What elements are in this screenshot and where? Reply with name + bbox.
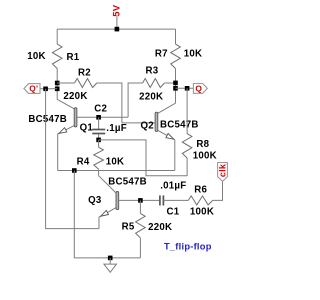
node C2 top: [96, 115, 101, 120]
svg-text:R1: R1: [67, 52, 80, 63]
svg-text:10K: 10K: [184, 48, 203, 59]
transistor Q2: [158, 103, 176, 113]
node R8 branch: [185, 86, 190, 91]
wire Qbar flag lead: [40, 88, 57, 90]
wire Q1 base to R3: [99, 116, 129, 118]
svg-text:220K: 220K: [148, 222, 172, 233]
svg-text:BC547B: BC547B: [108, 177, 147, 188]
node ground tee: [108, 256, 113, 261]
resistor R3: [128, 83, 143, 117]
wire emitter rail: [58, 170, 175, 172]
flag clk input: [218, 163, 228, 182]
wire C2 bottom to R8 bottom: [99, 140, 188, 176]
svg-text:10K: 10K: [106, 156, 125, 167]
wire top power rail: [57, 28, 175, 30]
node ground branch: [72, 168, 77, 173]
svg-text:BC547B: BC547B: [28, 114, 67, 125]
wire Q flag lead: [176, 87, 194, 89]
svg-text:5V: 5V: [112, 4, 123, 17]
resistor R6: [163, 199, 188, 201]
svg-text:R3: R3: [146, 65, 159, 76]
svg-text:T_flip-flop: T_flip-flop: [164, 241, 212, 251]
svg-text:.1µF: .1µF: [106, 123, 127, 134]
svg-text:10K: 10K: [27, 51, 46, 62]
svg-text:Q3: Q3: [88, 195, 102, 206]
ground symbol: [104, 258, 117, 272]
node Q tee: [173, 86, 178, 91]
svg-text:R4: R4: [77, 156, 90, 167]
wire Qbar branch down-around to Q3 emitter: [46, 89, 99, 229]
svg-text:100K: 100K: [190, 207, 214, 218]
wire Q1 collector vertical: [56, 83, 58, 99]
node Qbar tee: [55, 87, 60, 92]
svg-text:R8: R8: [196, 139, 209, 150]
svg-text:R2: R2: [78, 68, 91, 79]
svg-text:BC547B: BC547B: [160, 119, 199, 130]
resistor R7: [175, 29, 177, 44]
capacitor C2: [98, 117, 100, 129]
wire Q2 collector vertical: [175, 83, 177, 103]
resistor R1: [56, 29, 58, 44]
svg-text:100K: 100K: [193, 151, 217, 162]
wire Q3 base node: [140, 199, 160, 201]
node 5V junction: [115, 27, 120, 32]
svg-text:C1: C1: [167, 206, 180, 217]
node R3 tee: [173, 81, 178, 86]
capacitor C1: [159, 195, 161, 205]
transistor Q3: [99, 176, 117, 193]
resistor R4: [98, 140, 100, 147]
resistor R8: [186, 88, 188, 133]
svg-text:R6: R6: [194, 184, 207, 195]
resistor R5: [139, 200, 141, 213]
node R2 tee: [55, 81, 60, 86]
flag Qbar output: [24, 84, 40, 94]
svg-text:220K: 220K: [63, 91, 87, 102]
node C2 bottom: [96, 138, 101, 143]
wire bottom ground rail: [74, 171, 140, 258]
flag Q output: [193, 84, 207, 94]
wire Q2 emitter vertical: [174, 140, 176, 171]
svg-text:220K: 220K: [139, 91, 163, 102]
resistor R2: [57, 82, 74, 84]
svg-text:R5: R5: [122, 221, 135, 232]
node R5 tee: [138, 198, 143, 203]
wire R2 to Q2 base: [122, 122, 155, 124]
svg-text:clk: clk: [218, 163, 228, 177]
node Qbar branch: [43, 87, 48, 92]
svg-text:Q1: Q1: [80, 123, 94, 134]
svg-text:Q2: Q2: [140, 120, 153, 131]
wire 5V lead: [116, 17, 118, 30]
transistor Q1: [57, 99, 75, 109]
svg-text:R7: R7: [155, 48, 168, 59]
svg-text:Q: Q: [195, 84, 202, 94]
svg-text:.01µF: .01µF: [160, 181, 186, 192]
svg-text:Q': Q': [29, 84, 38, 94]
svg-text:C2: C2: [94, 103, 107, 114]
